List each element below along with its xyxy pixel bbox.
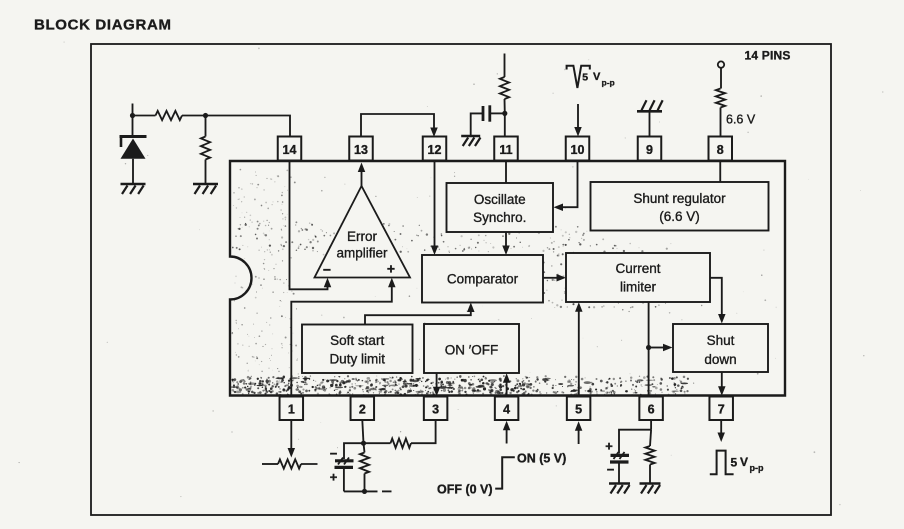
ground under zener	[121, 183, 146, 186]
wire pin12 down to comparator	[434, 161, 436, 248]
pin2 external node	[362, 420, 363, 443]
pin 3 box (bottom row)	[424, 397, 448, 421]
svg-text:Synchro.: Synchro.	[473, 210, 526, 225]
pin1 wiper arrow onto potentiometer	[290, 420, 292, 449]
wire pin10 into oscillate synchro right side	[562, 161, 578, 208]
pin 7 external arrow	[720, 420, 722, 434]
resistor (vertical) to ground at pin14 node	[205, 116, 207, 137]
pin 4 box (bottom row)	[495, 397, 518, 421]
wire pin14 down to error amp inverting input	[290, 161, 328, 290]
svg-text:Shunt regulator: Shunt regulator	[633, 191, 726, 206]
junction dot at zener top	[130, 113, 135, 118]
wire pin1 up to error amp non-inverting input	[291, 286, 392, 397]
capacitor at pin 11	[482, 106, 485, 121]
svg-text:−: −	[607, 462, 615, 477]
wire current limiter right to shut down top	[710, 278, 722, 315]
pin 6 external network	[650, 420, 652, 430]
wire right to resistor to pin 3	[364, 442, 391, 444]
terminal circle above pin 8	[718, 61, 724, 67]
IC body outline with pin-1 notch	[230, 161, 785, 396]
arrow into pin 10	[577, 104, 579, 128]
wire pin11 down to oscillate synchro	[505, 161, 507, 184]
svg-text:V: V	[740, 455, 748, 469]
resistor (horizontal) between zener node and pin14 node	[156, 111, 183, 120]
svg-text:13: 13	[354, 143, 368, 157]
wire comparator to current limiter	[543, 277, 558, 279]
svg-text:(6.6 V): (6.6 V)	[659, 209, 700, 224]
resistor (vertical) pin2 node to bottom rail	[364, 443, 365, 452]
pin 4 external arrow	[506, 429, 508, 444]
svg-text:Error: Error	[347, 229, 378, 244]
pin 9 box (top row)	[638, 137, 662, 161]
wire loop from pin 13 to pin 12 with arrow	[361, 114, 434, 137]
block: Shut down	[673, 324, 768, 372]
svg-text:3: 3	[432, 403, 439, 417]
ground under pin6 cap	[609, 482, 630, 485]
pin 13 box (top row)	[349, 137, 373, 161]
svg-text:amplifier: amplifier	[336, 246, 388, 261]
resistor (horizontal) between pin2 node and pin3	[391, 439, 412, 448]
svg-text:p-p: p-p	[750, 463, 764, 473]
svg-text:+: +	[330, 470, 338, 485]
input pulse symbol at pin 10 (5 Vp-p)	[567, 66, 590, 88]
ground under vertical resistor	[193, 183, 218, 186]
svg-text:V: V	[593, 71, 601, 83]
svg-text:ON (5 V): ON (5 V)	[517, 452, 566, 466]
ON/OFF step waveform symbol	[495, 457, 515, 488]
svg-text:BLOCK DIAGRAM: BLOCK DIAGRAM	[34, 17, 172, 34]
ground at pin11 cap	[461, 135, 480, 138]
junction dot at shunt resistor top	[203, 113, 208, 118]
svg-text:7: 7	[718, 403, 725, 417]
ground under pin6 resistor	[640, 482, 661, 485]
svg-text:Comparator: Comparator	[447, 272, 519, 287]
wire oscillate synchro down to comparator	[505, 232, 507, 247]
pin 7 box (bottom row)	[709, 397, 733, 421]
pin 12 box (top row)	[423, 137, 447, 161]
svg-text:2: 2	[359, 403, 366, 417]
bottom rail joining cap and resistor	[344, 490, 378, 492]
inverted ground above pin 9	[649, 112, 651, 137]
block: ON/OFF	[424, 324, 519, 373]
svg-text:4: 4	[503, 403, 510, 417]
svg-text:5: 5	[582, 72, 588, 84]
svg-text:+: +	[387, 261, 395, 277]
svg-text:Duty limit: Duty limit	[329, 352, 385, 367]
branch to shut down left with arrow	[649, 347, 664, 349]
outer frame	[91, 44, 831, 515]
potentiometer (horizontal resistor) under pin 1	[262, 463, 278, 465]
wire pin 5 up to current limiter	[578, 311, 580, 397]
svg-text:1: 1	[288, 403, 295, 417]
pin 11 box (top row)	[494, 137, 518, 161]
junction dot pin11 node	[502, 111, 507, 116]
pin 11 external: resistor stub	[504, 54, 506, 78]
block: Current limiter	[566, 253, 710, 302]
wire soft start top to comparator bottom	[365, 311, 471, 325]
pin 14 box (top row)	[278, 137, 302, 161]
pin 1 box (bottom row)	[280, 397, 304, 421]
svg-text:Oscillate: Oscillate	[474, 192, 526, 207]
svg-text:9: 9	[646, 143, 653, 157]
pin 8 box (top row)	[709, 137, 733, 161]
svg-text:14: 14	[283, 143, 297, 157]
svg-text:10: 10	[571, 143, 585, 157]
svg-text:down: down	[704, 352, 736, 367]
resistor (vertical) at pin 6	[650, 430, 651, 446]
output pulse symbol (5 Vp-p)	[710, 451, 734, 475]
wire from resistor to pin 14	[182, 116, 290, 137]
svg-text:6: 6	[648, 403, 655, 417]
svg-text:+: +	[605, 439, 613, 454]
svg-text:−: −	[323, 262, 331, 278]
wire cap to ground	[471, 113, 483, 135]
svg-text:8: 8	[717, 143, 724, 157]
wire pin 4 up to ON/OFF	[506, 382, 508, 397]
svg-text:5: 5	[575, 403, 582, 417]
block: Oscillate Synchro.	[447, 183, 554, 232]
svg-text:limiter: limiter	[620, 280, 657, 295]
pin 10 box (top row)	[566, 137, 590, 161]
svg-text:14 PINS: 14 PINS	[745, 49, 791, 63]
svg-text:ON ′OFF: ON ′OFF	[445, 343, 499, 358]
zener diode (cathode bar with hook, filled triangle)	[132, 116, 134, 139]
block: Shunt regulator (6.6 V)	[591, 182, 769, 231]
svg-text:−: −	[330, 446, 338, 461]
wire shut down to pin 7	[721, 372, 723, 388]
svg-text:12: 12	[428, 143, 442, 157]
svg-text:5: 5	[731, 456, 738, 470]
pin 5 box (bottom row)	[567, 397, 591, 421]
wire: node at pin14 external divider	[132, 104, 134, 116]
wire: zener anode to ground	[132, 159, 134, 183]
pin 2 box (bottom row)	[351, 397, 375, 421]
block: Comparator	[422, 255, 543, 303]
svg-text:11: 11	[499, 143, 512, 157]
electrolytic capacitor at pin 2	[344, 443, 364, 459]
svg-text:p-p: p-p	[602, 78, 615, 88]
wire current limiter bottom down to pin 6	[648, 302, 650, 397]
wire ON/OFF down to pin 3	[436, 373, 438, 388]
svg-text:Current: Current	[615, 261, 660, 276]
electrolytic capacitor at pin 6	[611, 454, 630, 457]
svg-text:6.6 V: 6.6 V	[726, 113, 756, 127]
pin 6 box (bottom row)	[639, 397, 663, 421]
block: Soft start / Duty limit	[302, 325, 413, 374]
svg-text:Shut: Shut	[707, 333, 735, 348]
op-amp: Error amplifier triangle	[315, 186, 411, 278]
pin 5 external arrow	[578, 430, 580, 445]
resistor (vertical) above pin 8	[720, 68, 722, 89]
wire error amp output up to pin 13	[361, 170, 363, 186]
svg-text:Soft start: Soft start	[330, 333, 384, 348]
wire pin8 down to shunt regulator	[719, 161, 721, 183]
svg-text:OFF (0 V): OFF (0 V)	[437, 483, 493, 497]
